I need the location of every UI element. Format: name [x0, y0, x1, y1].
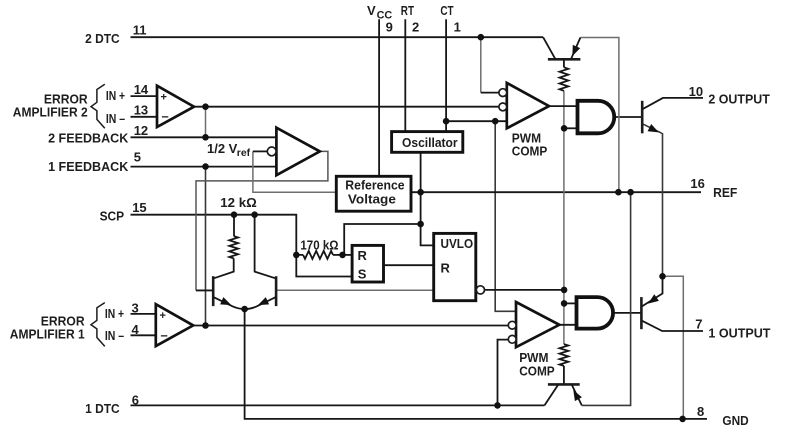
wire GND rail — [245, 309, 707, 419]
svg-text:+: + — [160, 310, 166, 322]
transistor Q2 (2 OUTPUT NPN) — [642, 101, 659, 134]
svg-text:2: 2 — [412, 19, 419, 34]
wire pin 4 IN- — [131, 334, 156, 336]
wire Reference Voltage to 1/2 Vref bubble — [253, 151, 336, 192]
node 2DTC — [478, 34, 485, 41]
node REF tap — [417, 221, 424, 228]
transistor Q7 (SCP pair right) — [245, 276, 277, 309]
svg-text:Voltage: Voltage — [348, 191, 396, 206]
brace error amplifier 1 — [91, 303, 105, 347]
AND gate 1 — [577, 297, 614, 329]
wire pin 15 SCP — [131, 215, 297, 255]
svg-text:GND: GND — [722, 413, 748, 428]
node 2FB — [202, 134, 209, 141]
svg-text:ref: ref — [237, 148, 251, 159]
svg-text:16: 16 — [690, 176, 704, 191]
svg-text:8: 8 — [697, 404, 704, 419]
node GND — [679, 416, 686, 423]
wire 1DTC up to PWM comp 1 bubble — [498, 340, 509, 406]
wire SCP pair base to UVLO left — [276, 289, 434, 291]
box UVLO — [434, 233, 476, 300]
node EA2 out — [202, 103, 209, 110]
bubble PWM comp 2 input upper — [499, 89, 507, 97]
svg-text:COMP: COMP — [519, 364, 555, 379]
svg-text:11: 11 — [133, 22, 147, 37]
svg-text:IN +: IN + — [105, 306, 125, 321]
wire CT sawtooth down to PWM comp 1 input — [495, 121, 516, 311]
op-amp PWM COMP 2 — [507, 83, 549, 128]
wire AND1 output to Q5 base — [613, 312, 641, 314]
svg-text:2 DTC: 2 DTC — [85, 31, 120, 46]
svg-text:12: 12 — [134, 123, 148, 138]
wire Q2 emitter down to node — [642, 124, 662, 276]
node SCP 12k — [231, 211, 238, 218]
wire Q3 base through resistor top lead — [563, 59, 565, 67]
transistor Q3 (top PNP over resistor) — [543, 37, 580, 59]
wire CT vertical — [445, 19, 447, 131]
node REF at oscillator — [417, 189, 424, 196]
svg-text:10: 10 — [689, 84, 703, 99]
node SCP pair emitters — [241, 306, 248, 313]
node UVLO rail — [561, 287, 568, 294]
wire 12k resistor top lead — [233, 215, 235, 236]
bubble PWM comp 1 input lower — [508, 335, 516, 343]
svg-text:12 kΩ: 12 kΩ — [220, 195, 256, 210]
svg-text:IN +: IN + — [106, 88, 126, 103]
svg-text:1 DTC: 1 DTC — [85, 401, 120, 416]
wire oscillator down to REF and UVLO — [421, 152, 434, 245]
node emitter join — [659, 273, 666, 280]
svg-text:5: 5 — [134, 149, 141, 164]
transistor Q5 (1 OUTPUT PNP) — [641, 294, 659, 329]
svg-text:CT: CT — [440, 3, 453, 18]
op-amp PWM COMP 1 — [516, 302, 559, 347]
svg-text:15: 15 — [132, 200, 146, 215]
wire emitter node to GND drop — [663, 276, 684, 419]
svg-text:7: 7 — [695, 317, 702, 332]
wire node EA2out to 2FB vertical — [205, 107, 207, 138]
wire 1/2 Vref buffer output wrap to SCP pair base — [196, 151, 328, 290]
svg-text:R: R — [358, 248, 368, 263]
wire UVLO output to channel rail — [484, 289, 564, 291]
svg-text:4: 4 — [132, 322, 140, 337]
box R S latch — [352, 245, 383, 282]
wire long vertical channel rail upper — [563, 91, 565, 344]
svg-text:9: 9 — [386, 19, 393, 34]
wire stub buffer wrap into SCP left base — [196, 289, 213, 291]
bubble 1/2 Vref buffer input — [267, 147, 276, 156]
node REF Q4 — [627, 189, 634, 196]
svg-text:IN –: IN – — [106, 111, 125, 126]
wire Vcc rail vertical — [378, 19, 380, 176]
svg-text:SCP: SCP — [100, 208, 125, 223]
AND gate 2 — [578, 101, 615, 134]
node 170k left — [293, 252, 300, 259]
svg-text:+: + — [161, 92, 167, 104]
svg-text:1/2 V: 1/2 V — [207, 141, 238, 156]
svg-text:COMP: COMP — [512, 144, 548, 159]
wire SCP right collector from SCP line — [255, 215, 276, 279]
wire pin 6 1DTC — [131, 404, 545, 406]
svg-text:S: S — [358, 267, 367, 282]
wire 2DTC down to PWM comp 2 bubble — [480, 37, 482, 92]
svg-text:IN –: IN – — [105, 328, 124, 343]
wire Q5 collector to 1 OUTPUT — [642, 321, 703, 331]
node AND2 input — [561, 125, 568, 132]
wire error amp 1 output — [193, 325, 508, 327]
node REF Q3 — [615, 189, 622, 196]
resistor 12 kOhm — [229, 236, 238, 258]
svg-text:2 OUTPUT: 2 OUTPUT — [708, 91, 769, 106]
svg-text:170 kΩ: 170 kΩ — [300, 238, 338, 253]
svg-text:14: 14 — [134, 82, 149, 97]
wire PWM comp 2 output to AND2 — [549, 105, 578, 107]
wire AND2 lower input — [564, 127, 577, 129]
op-amp error amplifier 2 — [157, 86, 194, 127]
node SCP right collector — [251, 211, 258, 218]
wire REF rail — [411, 191, 701, 193]
bubble PWM comp 1 input upper — [508, 321, 516, 329]
node 1DTC rise — [494, 402, 501, 409]
svg-text:AMPLIFIER 1: AMPLIFIER 1 — [10, 327, 85, 342]
svg-text:REF: REF — [713, 185, 737, 200]
wire pin 12 2 FEEDBACK — [131, 136, 277, 138]
wire REF down to Q4 emitter — [582, 192, 631, 405]
wire pin 14 IN+ — [131, 95, 158, 97]
wire stub into PWM comp 2 bubble — [481, 92, 500, 94]
wire CT to PWM comp 2 input — [446, 120, 507, 122]
wire pin 3 IN+ — [131, 313, 156, 315]
svg-text:Oscillator: Oscillator — [402, 135, 458, 150]
op-amp 1/2 Vref buffer comparator — [276, 128, 319, 176]
wire latch R input — [343, 254, 353, 256]
wire node 1FB down to EA1 output — [205, 167, 207, 326]
wire 1/2 Vref stub into bubble — [253, 150, 268, 152]
wire Q4 base lead — [563, 366, 565, 385]
svg-text:RT: RT — [401, 3, 414, 18]
wire AND1 upper input — [564, 302, 576, 304]
brace error amplifier 2 — [91, 84, 105, 128]
wire error amp 2 output — [194, 106, 499, 108]
wire SCP to resistor and S loop — [296, 255, 352, 277]
wire pin 11 2DTC — [131, 36, 544, 38]
wire 12k resistor bottom to SCP left collector — [214, 258, 234, 278]
svg-text:AMPLIFIER 2: AMPLIFIER 2 — [13, 104, 88, 119]
svg-text:V: V — [367, 3, 376, 18]
box Reference Voltage — [336, 176, 411, 211]
resistor R top (Q3 base) — [560, 67, 569, 91]
wire REF tap to latch R input — [344, 224, 420, 255]
wire PWM comp 1 output to AND1 — [559, 324, 576, 326]
transistor Q4 (bottom PNP over resistor) — [545, 384, 582, 405]
node CT line drop — [492, 118, 499, 125]
bubble PWM comp 2 input lower — [499, 103, 507, 111]
wire pin 13 IN- — [131, 116, 158, 118]
svg-text:–: – — [161, 327, 168, 342]
svg-text:1 OUTPUT: 1 OUTPUT — [708, 325, 770, 340]
svg-text:UVLO: UVLO — [441, 236, 474, 251]
svg-text:6: 6 — [132, 393, 139, 408]
node 170k right — [339, 252, 346, 259]
svg-text:R: R — [441, 261, 451, 276]
wire latch output to UVLO — [385, 264, 434, 266]
node AND1 input — [561, 300, 568, 307]
svg-text:1: 1 — [454, 19, 461, 34]
svg-text:3: 3 — [132, 301, 139, 316]
svg-text:13: 13 — [134, 102, 148, 117]
node EA1 out — [202, 322, 209, 329]
resistor 170 kOhm — [303, 251, 333, 259]
transistor Q6 (SCP pair left) — [196, 276, 245, 309]
box Oscillator — [392, 132, 463, 153]
svg-text:1 FEEDBACK: 1 FEEDBACK — [48, 159, 129, 174]
resistor R bottom (Q4 base) — [560, 344, 569, 366]
svg-text:–: – — [162, 109, 169, 124]
wire AND2 output to Q2 base — [614, 116, 642, 118]
svg-text:2 FEEDBACK: 2 FEEDBACK — [48, 130, 129, 145]
node CT — [443, 118, 450, 125]
wire Q3 emitter to REF — [580, 38, 619, 193]
wire 170k to R dot — [333, 254, 343, 256]
wire Q5 emitter to node — [642, 276, 663, 306]
wire Q2 collector to 2 OUTPUT — [642, 98, 703, 109]
wire pin 5 1 FEEDBACK — [131, 166, 277, 168]
node 1FB — [202, 163, 209, 170]
op-amp error amplifier 1 — [156, 304, 193, 346]
bubble UVLO output — [476, 286, 484, 294]
wire RT vertical — [404, 19, 406, 131]
